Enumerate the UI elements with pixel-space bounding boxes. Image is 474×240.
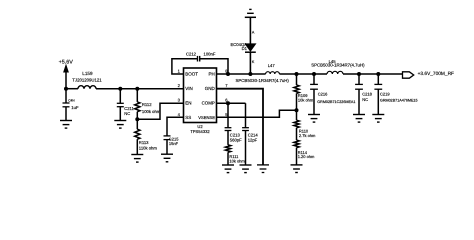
svg-text:TJ201209U121: TJ201209U121 [72,77,102,82]
svg-text:2.7k ohm: 2.7k ohm [299,133,316,138]
svg-text:GRM02B71C226MEA1: GRM02B71C226MEA1 [317,100,355,104]
svg-text:C4N: C4N [68,98,75,102]
svg-text:K: K [252,60,255,64]
svg-text:12pF: 12pF [248,138,258,143]
svg-text:100nF: 100nF [204,51,216,56]
svg-text:BOOT: BOOT [185,72,198,77]
svg-text:10k ohm: 10k ohm [298,97,314,102]
svg-text:TPS54332: TPS54332 [190,129,210,134]
svg-text:D1: D1 [242,46,248,51]
svg-text:R112: R112 [142,102,152,107]
svg-text:15nF: 15nF [169,141,179,146]
svg-text:SPCB5030-1R34R7(4.7uH): SPCB5030-1R34R7(4.7uH) [236,78,290,83]
svg-text:L47: L47 [268,63,276,68]
svg-text:C214: C214 [248,132,259,137]
svg-text:+3.6V_700M_RF: +3.6V_700M_RF [418,71,454,77]
svg-text:VIN: VIN [185,86,193,91]
svg-text:L159: L159 [82,71,93,76]
svg-text:COMP: COMP [202,101,215,106]
svg-text:A: A [252,31,255,35]
svg-text:EN: EN [185,101,191,106]
svg-text:100k ohm: 100k ohm [142,109,161,114]
svg-text:4: 4 [178,112,181,117]
svg-text:SS: SS [185,115,191,120]
svg-text:C213: C213 [230,132,241,137]
svg-text:7: 7 [225,83,228,88]
svg-text:GND: GND [205,86,216,91]
svg-text:560pF: 560pF [230,138,242,143]
svg-text:3: 3 [178,98,181,103]
svg-text:10k ohm: 10k ohm [229,158,245,163]
svg-text:NC: NC [362,97,368,102]
svg-text:C218: C218 [362,92,372,97]
svg-text:2: 2 [178,83,181,88]
svg-text:1: 1 [178,69,181,74]
svg-text:PH: PH [209,72,215,77]
svg-text:NC: NC [124,111,130,116]
svg-text:1uF: 1uF [71,105,79,110]
svg-text:GRM02B71A476ME15: GRM02B71A476ME15 [380,99,418,103]
svg-text:VSENSE: VSENSE [198,115,215,120]
svg-text:C216: C216 [318,92,328,97]
svg-text:110k ohm: 110k ohm [139,146,158,151]
svg-text:SPCB5030-1R34R7(4.7uH): SPCB5030-1R34R7(4.7uH) [311,63,365,68]
svg-text:1.20 ohm: 1.20 ohm [298,154,315,159]
svg-text:R113: R113 [139,140,149,145]
svg-text:C219: C219 [380,92,390,97]
svg-text:C212: C212 [186,51,197,56]
